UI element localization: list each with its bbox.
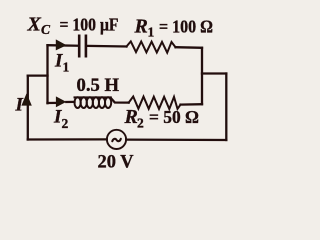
svg-text:R: R <box>124 106 138 128</box>
svg-text:2: 2 <box>137 116 144 131</box>
wire left outer vertical <box>27 76 29 140</box>
capacitor XC plate 2 <box>85 36 88 56</box>
ac source tilde symbol <box>112 139 121 141</box>
svg-text:I: I <box>15 95 24 116</box>
wire R1 to top-right corner <box>176 46 203 49</box>
inductor L 0.5H loop 1 <box>75 97 81 108</box>
inductor L 0.5H loop 3 <box>87 97 93 108</box>
inductor L 0.5H top line <box>75 96 111 98</box>
wire right outer vertical <box>225 74 227 141</box>
resistor R2 zigzag <box>129 97 181 110</box>
arrow current I (up) <box>21 93 31 105</box>
wire right stub <box>202 72 226 74</box>
arrow current I2 <box>56 96 66 107</box>
wire capacitor to resistor R1 <box>88 45 127 48</box>
wire inner-left vertical <box>46 45 48 103</box>
wire left stub <box>28 74 48 76</box>
svg-text:1: 1 <box>148 25 155 40</box>
svg-text:X: X <box>27 14 42 36</box>
svg-text:0.5 H: 0.5 H <box>77 76 120 96</box>
svg-text:1: 1 <box>63 60 70 75</box>
wire inner-right vertical <box>201 48 203 104</box>
svg-text:2: 2 <box>62 116 69 131</box>
svg-text:C: C <box>41 22 51 37</box>
wire R2 to middle-right corner <box>181 103 203 106</box>
svg-text:20 V: 20 V <box>98 153 135 173</box>
inductor L 0.5H loop 6 <box>105 97 111 108</box>
svg-text:= 100 Ω: = 100 Ω <box>159 17 213 37</box>
ac source V circle 20V <box>107 130 126 149</box>
inductor L 0.5H loop 4 <box>93 97 99 108</box>
wire top branch left segment <box>48 44 79 47</box>
wire middle branch left segment <box>48 102 58 104</box>
svg-text:= 50 Ω: = 50 Ω <box>149 107 199 127</box>
capacitor XC plate 1 <box>78 36 81 56</box>
inductor L 0.5H loop 2 <box>81 97 87 108</box>
inductor L 0.5H loop 5 <box>99 97 105 108</box>
wire arrow-tip to inductor <box>66 101 74 103</box>
wire bottom left segment <box>28 138 107 140</box>
arrow current I1 <box>56 39 67 50</box>
wire bottom right segment <box>126 138 226 141</box>
wire inductor exit jog <box>111 98 129 103</box>
resistor R1 zigzag <box>127 41 176 52</box>
svg-text:R: R <box>134 16 148 38</box>
svg-text:= 100 μF: = 100 μF <box>60 15 119 35</box>
